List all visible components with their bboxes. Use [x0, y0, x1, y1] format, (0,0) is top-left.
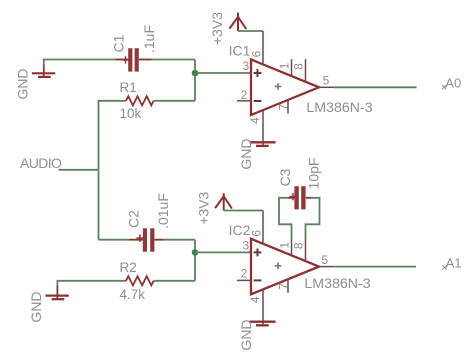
- wire IC2 output to A1: [334, 266, 417, 268]
- IC1 pin 4 stub: [262, 110, 264, 146]
- op-amp IC1 body: [251, 60, 319, 116]
- svg-text:C2: C2: [126, 210, 142, 228]
- op-amp IC1 center plus mark: [275, 83, 282, 90]
- svg-text:10pF: 10pF: [306, 158, 322, 190]
- svg-text:8: 8: [292, 242, 306, 249]
- svg-text:LM386N-3: LM386N-3: [306, 100, 372, 116]
- capacitor C2: [129, 228, 164, 251]
- svg-text:IC2: IC2: [229, 222, 251, 238]
- svg-text:4.7k: 4.7k: [120, 287, 146, 302]
- svg-text:GND: GND: [238, 138, 254, 169]
- svg-text:7: 7: [276, 103, 290, 110]
- svg-text:LM386N-3: LM386N-3: [304, 276, 370, 292]
- supply +3V3 (bottom) arrow: [215, 193, 232, 210]
- svg-text:6: 6: [250, 230, 264, 237]
- svg-text:3: 3: [242, 238, 249, 252]
- wire R2 left lead to GND3: [57, 280, 127, 282]
- wire R1 left lead: [99, 100, 127, 102]
- wire AUDIO to C2: [99, 239, 130, 241]
- op-amp IC2 center plus mark: [275, 262, 282, 269]
- IC2 pin 4 stub: [262, 289, 264, 325]
- svg-text:4: 4: [248, 117, 262, 124]
- wire node B to IC2 pin3: [195, 251, 252, 253]
- wire AUDIO bus vertical: [98, 100, 100, 240]
- ground GND4 under IC2: [250, 322, 276, 326]
- wire C3 right to IC2 pin8: [306, 198, 320, 239]
- op-amp IC1 minus input mark: [254, 100, 262, 102]
- wire node B vertical: [194, 240, 196, 281]
- wire R1 right lead to node A: [154, 100, 195, 102]
- svg-text:C3: C3: [277, 168, 293, 186]
- wire GND1 to C1: [43, 59, 116, 61]
- IC2 pin 6 stub: [262, 211, 264, 245]
- net A0 label tick: [442, 85, 446, 89]
- IC1 pin 8 stub: [305, 59, 307, 82]
- supply +3V3 (top) arrow: [229, 13, 246, 31]
- op-amp IC2 plus input mark: [254, 249, 262, 257]
- svg-text:R1: R1: [120, 80, 137, 95]
- svg-text:4: 4: [248, 296, 262, 303]
- svg-text:GND: GND: [238, 319, 254, 350]
- svg-text:2: 2: [241, 266, 248, 280]
- wire node A to IC1 pin3: [195, 72, 252, 74]
- capacitor C3: [288, 186, 312, 209]
- wire AUDIO horizontal: [59, 169, 99, 171]
- IC2 pin 7 stub: [287, 280, 289, 293]
- svg-text:GND: GND: [28, 291, 44, 322]
- wire C3 left to IC2 pin1: [279, 198, 292, 239]
- svg-text:IC1: IC1: [229, 43, 251, 59]
- IC1 pin 1 stub: [291, 59, 293, 76]
- IC2 pin 5 stub: [319, 266, 334, 268]
- IC2 pin 1 stub: [291, 239, 293, 256]
- svg-text:5: 5: [321, 253, 328, 267]
- svg-text:1: 1: [278, 62, 292, 69]
- junction node A: [192, 70, 199, 77]
- svg-text:5: 5: [323, 74, 330, 88]
- svg-text:C1: C1: [111, 34, 127, 52]
- IC1 pin 5 stub: [319, 86, 334, 88]
- svg-text:1: 1: [278, 242, 292, 249]
- ground GND1: [32, 73, 55, 77]
- junction node B: [192, 249, 199, 256]
- wire GND1 vertical drop: [43, 60, 45, 67]
- wire C2 to node B: [164, 239, 196, 241]
- svg-text:R2: R2: [120, 260, 137, 275]
- wire node A vertical: [194, 60, 196, 101]
- op-amp IC1 plus input mark: [254, 69, 262, 77]
- op-amp IC2 minus input mark: [254, 279, 262, 281]
- resistor R1: [126, 96, 154, 105]
- svg-text:6: 6: [250, 50, 264, 57]
- svg-text:GND: GND: [15, 68, 31, 99]
- IC1 pin 6 stub: [262, 31, 264, 65]
- net A1 label tick: [443, 266, 447, 270]
- wire GND3 vertical drop: [56, 281, 58, 288]
- svg-text:.01uF: .01uF: [155, 193, 171, 229]
- IC1 pin 2 stub: [237, 100, 251, 102]
- wire C1 to node A: [152, 59, 196, 61]
- op-amp IC2 body: [251, 239, 319, 294]
- svg-text:.1uF: .1uF: [141, 25, 157, 53]
- svg-text:7: 7: [276, 283, 290, 290]
- IC2 pin 2 stub: [237, 279, 251, 281]
- svg-text:3: 3: [242, 59, 249, 73]
- capacitor C1: [116, 48, 152, 71]
- svg-text:8: 8: [292, 63, 306, 70]
- svg-text:A1: A1: [446, 256, 462, 271]
- IC2 pin 8 stub: [305, 239, 307, 262]
- resistor R2: [126, 276, 154, 285]
- svg-text:10k: 10k: [120, 106, 142, 121]
- svg-text:A0: A0: [445, 75, 461, 90]
- ground GND3: [45, 296, 68, 300]
- wire R2 right lead to node B: [154, 280, 195, 282]
- wire +3V3 to IC2 pin6: [224, 210, 263, 212]
- ground GND2 under IC1: [250, 142, 276, 146]
- svg-text:+3V3: +3V3: [196, 191, 212, 224]
- wire +3V3 to IC1 pin6: [238, 30, 263, 32]
- svg-text:2: 2: [241, 88, 248, 102]
- wire IC1 output to A0: [334, 86, 417, 88]
- svg-text:+3V3: +3V3: [209, 12, 225, 45]
- IC1 pin 7 stub: [287, 100, 289, 113]
- svg-text:AUDIO: AUDIO: [20, 155, 62, 171]
